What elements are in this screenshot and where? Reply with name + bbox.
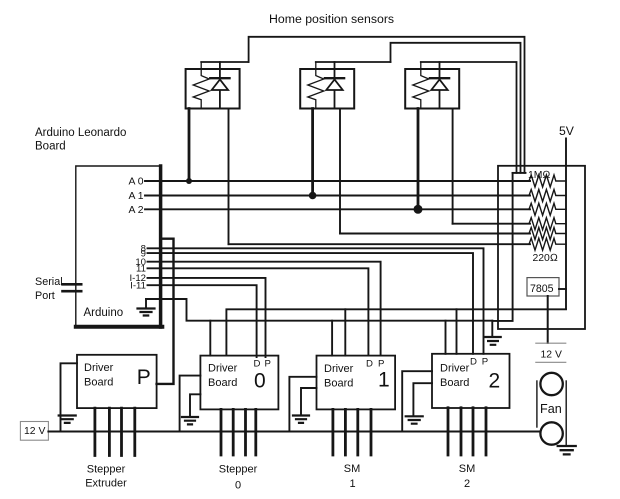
wire 5V rail bbox=[565, 139, 567, 309]
svg-text:Port: Port bbox=[35, 290, 55, 302]
fan terminal top bbox=[540, 373, 562, 395]
ground symbol driver P bbox=[59, 416, 76, 423]
svg-text:P: P bbox=[265, 359, 271, 370]
resistor R3 1M bbox=[529, 203, 566, 215]
wire driver 2 power gnd drop bbox=[445, 321, 447, 354]
ground symbol driver 1 bbox=[293, 416, 309, 423]
wire driver 0 ground to bus bbox=[180, 376, 201, 432]
node A0 junction dot bbox=[186, 178, 192, 184]
wire 12V power bus bbox=[48, 431, 540, 433]
wire driver 2 ground to bus bbox=[402, 371, 432, 431]
photodiode D1 bbox=[210, 77, 229, 79]
svg-text:Arduino: Arduino bbox=[84, 307, 124, 319]
opto sensor S1 box bbox=[186, 69, 240, 109]
svg-text:220Ω: 220Ω bbox=[533, 253, 558, 264]
svg-text:1: 1 bbox=[378, 369, 390, 392]
wire driver P ground bbox=[61, 363, 78, 431]
photodiode D2 bbox=[325, 77, 344, 79]
stepper leads driver 1 bbox=[333, 409, 371, 455]
ground symbol inside Arduino bbox=[145, 299, 147, 308]
wire bus 2 (sensor2 to resistor board) bbox=[391, 43, 521, 173]
svg-text:7805: 7805 bbox=[530, 283, 554, 295]
wire A0 line to pullup bbox=[145, 180, 530, 182]
ground symbol sensor common bbox=[485, 337, 500, 345]
supply box 12V left bbox=[20, 422, 48, 441]
fan bracket right to ground bbox=[565, 381, 567, 445]
wire 7805 input from 12V bbox=[547, 296, 549, 343]
wire 7805 output 5V rail to driver boards bbox=[226, 309, 566, 355]
wire S1 output lead to A0 bbox=[188, 109, 191, 182]
photodiode D3 bbox=[430, 77, 449, 79]
wire bus 1 (sensor1 to resistor board) bbox=[249, 37, 525, 173]
svg-text:12 V: 12 V bbox=[24, 426, 45, 437]
wire bus 3 (sensor3 top connector to resistor board) bbox=[421, 62, 517, 173]
wire Arduino ground to common ground bbox=[146, 299, 492, 321]
driver board P box bbox=[77, 355, 157, 408]
svg-text:1MΩ: 1MΩ bbox=[528, 170, 550, 181]
wire P stub to driver P bbox=[157, 239, 174, 384]
wire A2 line to pullup bbox=[145, 208, 530, 210]
wire pin 11 to driver 1 D bbox=[148, 268, 369, 355]
fan terminal bottom bbox=[540, 422, 562, 444]
svg-text:0: 0 bbox=[235, 480, 241, 492]
driver board 0 box bbox=[200, 356, 278, 410]
svg-text:SM: SM bbox=[344, 463, 361, 475]
svg-text:I-11: I-11 bbox=[130, 280, 146, 291]
resistor R1 1M bbox=[529, 175, 566, 187]
svg-text:Board: Board bbox=[35, 141, 66, 153]
node sensor common bar bbox=[513, 172, 526, 174]
svg-text:Driver: Driver bbox=[208, 363, 238, 375]
resistor inside S3 bbox=[413, 62, 429, 109]
Arduino U1 box bbox=[76, 166, 161, 327]
svg-text:SM: SM bbox=[459, 463, 476, 475]
node A1 junction dot bbox=[309, 192, 317, 200]
ground symbol driver 0 bbox=[182, 417, 198, 424]
wire pin I-11 to driver 0 D bbox=[148, 285, 257, 357]
resistor board box bbox=[498, 166, 585, 329]
ground symbol fan bbox=[558, 446, 576, 454]
wire driver 0 power gnd drop bbox=[209, 321, 211, 356]
svg-text:Board: Board bbox=[440, 377, 469, 389]
svg-text:Serial: Serial bbox=[35, 276, 63, 288]
node A2 junction dot bbox=[414, 205, 423, 214]
wire S3 LED lead down bbox=[452, 109, 454, 224]
svg-text:Driver: Driver bbox=[324, 363, 354, 375]
wire driver 2 power 5V drop bbox=[456, 309, 458, 354]
wire S1 LED lead down bbox=[228, 109, 230, 245]
svg-text:1: 1 bbox=[349, 478, 355, 490]
wire driver 1 ground to bus bbox=[289, 377, 316, 432]
wire pin 9 to driver 2 D bbox=[148, 253, 474, 354]
svg-text:2: 2 bbox=[489, 370, 501, 393]
svg-text:Stepper: Stepper bbox=[87, 464, 126, 476]
wire S2 top connector bbox=[316, 61, 391, 63]
svg-text:Driver: Driver bbox=[84, 362, 114, 374]
wire S3 output lead to A2 bbox=[417, 109, 420, 210]
stepper leads driver 2 bbox=[448, 408, 486, 455]
svg-text:A 1: A 1 bbox=[128, 191, 143, 202]
ground symbol driver 2 bbox=[406, 416, 423, 423]
driver board 2 box bbox=[432, 354, 510, 408]
svg-text:D: D bbox=[470, 357, 477, 368]
supply symbol 12V right bbox=[536, 343, 566, 362]
svg-text:A 0: A 0 bbox=[128, 177, 143, 188]
svg-text:Home position sensors: Home position sensors bbox=[269, 12, 394, 26]
svg-text:Driver: Driver bbox=[440, 363, 470, 375]
wire sensor common to ground bbox=[492, 173, 512, 337]
svg-text:A 2: A 2 bbox=[128, 205, 143, 216]
regulator 7805 box bbox=[527, 278, 559, 296]
svg-text:Board: Board bbox=[208, 377, 237, 389]
wire driver 1 power 5V drop bbox=[344, 309, 346, 355]
stepper leads driver 0 bbox=[221, 409, 256, 455]
svg-text:Stepper: Stepper bbox=[219, 464, 258, 476]
wire driver 1 power gnd drop bbox=[331, 321, 333, 356]
svg-text:D: D bbox=[254, 359, 261, 370]
svg-text:P: P bbox=[137, 366, 151, 389]
svg-text:Arduino Leonardo: Arduino Leonardo bbox=[35, 127, 126, 139]
wire pin 8 to driver 2 P bbox=[148, 248, 484, 353]
resistor inside S1 bbox=[193, 62, 209, 109]
resistor R2 1M bbox=[529, 190, 566, 202]
svg-text:D: D bbox=[366, 359, 373, 370]
wire pin 10 to driver 1 P bbox=[148, 262, 381, 356]
resistor inside S2 bbox=[308, 62, 324, 109]
svg-text:P: P bbox=[378, 359, 384, 370]
svg-text:12 V: 12 V bbox=[541, 350, 562, 361]
svg-text:0: 0 bbox=[254, 370, 266, 393]
svg-text:2: 2 bbox=[464, 478, 470, 490]
wire S1 top connector bbox=[201, 61, 248, 63]
resistor R5 220 with feed wire from S2 bbox=[340, 233, 530, 235]
wire pin I-12 to driver 0 P bbox=[148, 278, 266, 357]
svg-text:Extruder: Extruder bbox=[85, 478, 127, 490]
fan bracket left bbox=[536, 381, 538, 427]
wire 7805 output to rail bbox=[559, 288, 566, 290]
stepper leads driver P bbox=[95, 408, 135, 455]
svg-text:P: P bbox=[482, 357, 488, 368]
wire driver 1 ground symbol branch bbox=[301, 388, 317, 415]
resistor R6 220 with feed wire from S1 bbox=[229, 243, 531, 245]
svg-text:Fan: Fan bbox=[540, 402, 562, 416]
wire S2 output lead to A1 bbox=[311, 109, 314, 196]
svg-text:Board: Board bbox=[84, 377, 113, 389]
opto sensor S3 box bbox=[405, 69, 459, 109]
resistor R4 220 with feed wire from S3 bbox=[453, 223, 530, 225]
wire driver 0 ground symbol branch bbox=[190, 394, 200, 416]
svg-text:5V: 5V bbox=[559, 124, 575, 138]
wire driver 2 ground symbol branch bbox=[413, 383, 432, 416]
driver board 1 box bbox=[317, 356, 396, 410]
svg-text:Board: Board bbox=[324, 378, 353, 390]
wire S2 LED lead down bbox=[339, 109, 341, 234]
opto sensor S2 box bbox=[300, 69, 354, 109]
wire A1 line to pullup bbox=[145, 195, 530, 197]
